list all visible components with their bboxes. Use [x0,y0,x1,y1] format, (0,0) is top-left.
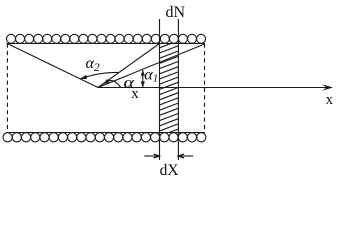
alpha1 double arrow [142,70,144,87]
alpha2 arrowhead [80,75,88,79]
svg-text:x: x [326,92,334,108]
x axis [98,87,331,89]
right dashed end line [204,44,206,133]
dX dimension right arrow [178,155,193,157]
coil turns top row [7,34,206,43]
solenoid bottom wall line [7,132,205,134]
dX dimension left arrow [144,155,159,157]
coil turns bottom row [3,133,206,142]
element dN hatching [160,36,179,137]
svg-text:dX: dX [160,162,179,179]
element dN left edge [159,19,161,160]
alpha2 curved arrow [82,72,120,78]
left dashed end line [6,44,8,133]
line to right end (alpha1 ray) [98,44,205,88]
alpha arc arrowhead [103,79,109,84]
alpha arc [108,80,121,87]
line to element near edge (steep ray) [98,44,160,88]
line to left end (alpha2 ray) [7,44,98,88]
element dN right edge [177,19,179,160]
x axis arrowhead [322,84,333,90]
solenoid top wall line [7,43,205,45]
svg-text:dN: dN [166,4,186,21]
svg-text:α: α [124,74,135,91]
